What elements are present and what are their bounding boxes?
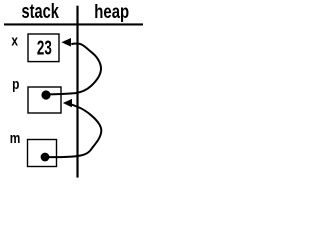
svg-text:23: 23 xyxy=(37,36,52,60)
arrowhead m to p xyxy=(63,99,72,107)
stack/heap divider line xyxy=(76,6,78,178)
header rule xyxy=(4,23,143,25)
svg-text:x: x xyxy=(11,33,18,49)
svg-text:m: m xyxy=(10,130,21,146)
svg-text:stack: stack xyxy=(22,0,60,23)
pointer dot p xyxy=(41,90,50,99)
svg-text:p: p xyxy=(12,76,19,92)
svg-text:heap: heap xyxy=(94,0,129,22)
pointer dot m xyxy=(41,153,50,162)
arrowhead p to x xyxy=(61,38,71,47)
box m xyxy=(28,140,57,167)
box x xyxy=(28,34,59,62)
arrow curve m to p xyxy=(45,104,101,157)
arrow curve p to x xyxy=(46,44,101,95)
box p xyxy=(28,87,61,113)
